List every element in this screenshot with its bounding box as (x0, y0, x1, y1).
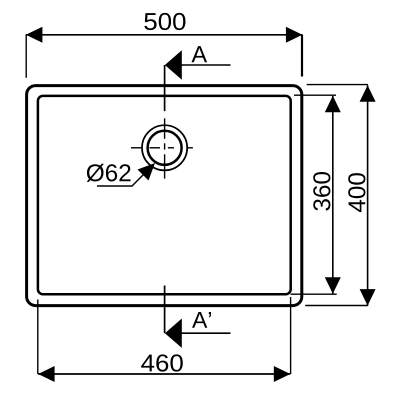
horizontal centerline of hole (131, 147, 193, 149)
dimension line 360 (332, 96, 334, 294)
dimension text 400 (rotated) (348, 173, 365, 212)
extension line top for 360 (294, 94, 336, 96)
hole diameter text Ø62 (87, 164, 131, 182)
dimension text 360 (rotated) (313, 172, 330, 211)
inner basin (460x360 outline) (38, 96, 291, 294)
extension line top for 400 (307, 84, 368, 86)
label A (192, 46, 208, 62)
leader arrowhead Ø62 (138, 163, 156, 181)
section arrow A' (165, 319, 182, 348)
arrowhead 360 bottom (325, 277, 341, 294)
label A' (192, 312, 211, 328)
vertical centerline of hole (164, 118, 166, 178)
extension line left for 460 (37, 300, 39, 375)
extension line right for 460 (290, 297, 292, 374)
arrowhead 500 left (26, 27, 43, 43)
dimension line 500 (26, 34, 303, 36)
leader line for Ø62 (97, 166, 153, 187)
arrowhead 460 right (274, 366, 291, 382)
dimension text 500 (144, 13, 185, 30)
extension line bottom for 360 (291, 293, 337, 295)
dimension text 460 (141, 354, 183, 371)
outer sink rim (500x400 outline) (27, 86, 302, 306)
extension line bottom for 400 (305, 305, 368, 307)
drain hole outer circle (142, 125, 187, 170)
section line A (top) (164, 65, 166, 111)
section leader line A' (181, 332, 231, 334)
arrowhead 400 bottom (360, 289, 376, 306)
arrowhead 360 top (325, 96, 341, 113)
dimension line 460 (38, 373, 290, 375)
section line A' (bottom) (164, 286, 166, 334)
section arrow A (165, 50, 182, 79)
drain hole inner circle (Ø62) (148, 131, 182, 165)
arrowhead 500 right (286, 27, 303, 43)
arrowhead 460 left (38, 366, 55, 382)
dimension line 400 (367, 85, 369, 305)
section leader line A (181, 64, 231, 66)
extension line left for 500 (25, 35, 27, 78)
extension line right for 500 (301, 35, 303, 77)
arrowhead 400 top (360, 85, 376, 102)
